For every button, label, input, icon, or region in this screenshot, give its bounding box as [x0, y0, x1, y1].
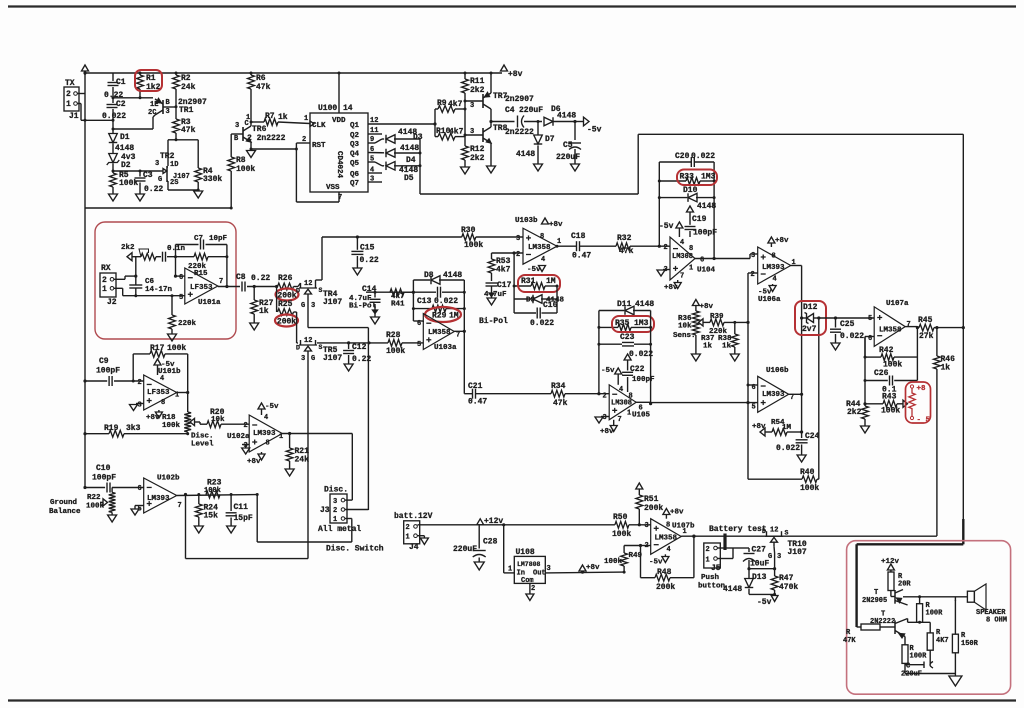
wire disc to J3 pin3 [351, 434, 353, 501]
op-amp U102a LM393 [249, 415, 282, 452]
wire C20 loop left [658, 162, 660, 246]
svg-text:+8v: +8v [664, 284, 678, 292]
transistor T 2N2222 [893, 626, 895, 628]
port -5v U106a [772, 284, 774, 286]
svg-text:3: 3 [470, 128, 474, 136]
svg-text:LM358: LM358 [879, 327, 902, 335]
svg-text:R47: R47 [779, 574, 794, 583]
svg-text:15pF: 15pF [234, 514, 253, 523]
speaker symbol [948, 596, 968, 598]
wire +12v row [418, 524, 615, 526]
svg-text:10uF: 10uF [750, 560, 769, 569]
power +8v U107b [663, 509, 670, 515]
resistor R23 100k [206, 491, 220, 498]
svg-text:47k: 47k [181, 126, 196, 135]
ground U102a pin3 [242, 444, 249, 446]
svg-text:CD4024: CD4024 [335, 151, 343, 179]
svg-text:U104: U104 [697, 267, 716, 275]
svg-text:7: 7 [680, 273, 684, 281]
svg-text:2: 2 [531, 585, 535, 593]
wire R48 to out [693, 536, 695, 578]
svg-text:R48: R48 [657, 568, 672, 577]
svg-text:47K: 47K [843, 637, 856, 645]
ground R37 [691, 354, 700, 361]
capacitor C12 0.22 [348, 343, 350, 349]
resistor R31 1M feedback [513, 253, 515, 286]
input arrow [127, 253, 132, 261]
svg-text:1: 1 [557, 238, 561, 246]
svg-text:LM358: LM358 [428, 329, 451, 337]
wire -5v row [749, 593, 775, 595]
wire U103a pin5 [414, 342, 423, 344]
svg-text:1: 1 [508, 566, 512, 574]
svg-text:T: T [874, 589, 878, 597]
svg-text:2N2222: 2N2222 [870, 618, 895, 626]
svg-text:C24: C24 [805, 432, 820, 441]
highlight R35 1M3 [612, 316, 654, 332]
wire U106b out [789, 393, 802, 395]
ground TR6 [247, 151, 256, 158]
resistor R 150R [954, 600, 956, 634]
resistor R43 100k [865, 403, 883, 405]
svg-text:7: 7 [178, 502, 182, 510]
resistor R44 2k2 [864, 404, 866, 406]
node TR6 collector [250, 121, 253, 124]
resistor R6 [250, 73, 252, 75]
transistor TR10 J107 [765, 535, 783, 537]
capacitor C17 4.7uF [486, 282, 498, 284]
resistor R50 100k [615, 521, 629, 528]
ground C11 [227, 526, 236, 533]
svg-text:4148: 4148 [400, 144, 419, 153]
svg-text:U100: U100 [318, 104, 337, 113]
ground C12 [344, 364, 353, 371]
capacitor C2 [112, 98, 114, 103]
svg-text:C4: C4 [505, 106, 515, 115]
node C8 out [253, 285, 256, 288]
svg-text:220uF: 220uF [519, 106, 543, 115]
svg-text:+12v: +12v [484, 517, 503, 526]
svg-text:J1: J1 [69, 112, 79, 121]
svg-text:R: R [936, 629, 941, 637]
wire J5 pin1 [718, 558, 734, 560]
svg-text:+8v: +8v [146, 414, 160, 422]
svg-text:R6: R6 [256, 74, 266, 83]
wire sens bus vertical [747, 273, 749, 479]
svg-text:3: 3 [155, 160, 159, 168]
ground C15 [353, 268, 362, 275]
svg-text:100R: 100R [910, 653, 928, 661]
svg-text:+8v: +8v [600, 428, 614, 436]
svg-text:G: G [158, 176, 162, 184]
node R3 bottom [175, 138, 178, 141]
svg-text:4148: 4148 [557, 112, 576, 121]
capacitor C4 220uF [491, 121, 515, 123]
svg-text:-5v: -5v [757, 598, 772, 607]
svg-text:4148: 4148 [516, 150, 535, 159]
svg-text:LM393: LM393 [762, 391, 785, 399]
ground U105 pin3 [601, 416, 609, 418]
svg-text:J4: J4 [409, 543, 419, 552]
svg-text:8: 8 [540, 233, 544, 241]
svg-text:1: 1 [304, 115, 308, 123]
resistor R 100R upper [919, 597, 921, 604]
wire Q6 stub [368, 172, 382, 174]
svg-text:D: D [296, 288, 300, 295]
svg-text:1M3: 1M3 [634, 319, 649, 328]
ground U108 [529, 583, 531, 594]
svg-text:D12: D12 [803, 303, 818, 312]
wire U107b pin2 node [641, 545, 651, 547]
wire TR4 source to C14 row [321, 279, 323, 281]
diode D1 4148 [109, 134, 118, 143]
svg-text:C6: C6 [145, 278, 155, 286]
svg-text:D: D [762, 528, 766, 535]
svg-text:LM358: LM358 [528, 244, 551, 252]
wire TR4 drain in [298, 283, 301, 287]
diode D9 4148 [513, 286, 515, 313]
svg-text:R34: R34 [551, 382, 566, 391]
svg-text:1D: 1D [170, 161, 178, 169]
wire R3 to TR2 drain [168, 139, 176, 141]
capacitor C16 0.022 [536, 308, 538, 319]
capacitor C 220uF speaker [904, 664, 906, 666]
wire Q2 stub [368, 133, 382, 135]
resistor R5 [112, 171, 114, 173]
wire J5 pin2 [718, 547, 734, 549]
svg-text:C19: C19 [692, 215, 707, 224]
wire out down to C21 [463, 331, 465, 393]
resistor R51 200k [636, 483, 643, 489]
wire +8v rail [85, 72, 502, 74]
wire C6 up [135, 257, 137, 276]
svg-text:2: 2 [333, 507, 337, 515]
svg-text:D1: D1 [120, 133, 130, 142]
svg-text:2: 2 [406, 524, 410, 532]
wire C20 loop right [713, 162, 715, 259]
svg-text:B: B [166, 99, 171, 107]
svg-text:2: 2 [603, 393, 607, 401]
connector J1 TX [64, 87, 79, 111]
capacitor C7 10pF [176, 244, 199, 246]
svg-text:100pF: 100pF [92, 474, 116, 483]
svg-text:C7: C7 [194, 235, 203, 243]
wire U106a pin2 [748, 272, 758, 274]
potentiometer R22 100k ground balance [111, 486, 113, 488]
svg-text:C15: C15 [360, 244, 375, 253]
ground J4 [420, 538, 428, 545]
svg-text:24k: 24k [295, 456, 310, 465]
wire Q5 to D5 [368, 161, 375, 163]
wire C27 row [749, 568, 775, 570]
power +12v arrow [477, 519, 484, 525]
svg-text:R2: R2 [181, 74, 191, 83]
highlight R31 1M [518, 275, 560, 292]
svg-text:batt.12V: batt.12V [394, 512, 433, 521]
svg-text:2: 2 [706, 546, 710, 554]
trimmer 2k2 [141, 253, 156, 260]
svg-text:14-17n: 14-17n [145, 286, 173, 294]
svg-text:Q5: Q5 [350, 160, 360, 168]
capacitor C6 14-17n [129, 284, 142, 286]
transistor TR5 J107 [299, 344, 317, 346]
capacitor C5 220uF [574, 122, 576, 141]
svg-text:2k2: 2k2 [470, 154, 485, 163]
connector J2 RX [100, 273, 116, 297]
resistor R38 1k [733, 321, 736, 324]
wire TR5 source row [316, 342, 318, 344]
svg-text:10pF: 10pF [209, 235, 228, 243]
svg-text:VSS: VSS [326, 184, 340, 192]
svg-text:LM358: LM358 [655, 535, 678, 543]
diode D12 2v7 [802, 317, 808, 319]
capacitor C8 0.22 [241, 282, 243, 292]
wire Q3 to D3 [368, 142, 375, 144]
resistor R1 [139, 73, 141, 75]
ground U104 pin3 [663, 269, 670, 271]
resistor R7 1k [251, 121, 264, 123]
svg-text:1k: 1k [259, 307, 269, 316]
svg-text:100k: 100k [386, 347, 405, 356]
wire diode bus [419, 139, 421, 194]
svg-text:+8v: +8v [247, 458, 261, 466]
svg-text:100k: 100k [464, 241, 483, 250]
op-amp U106b LM393 [758, 376, 789, 412]
node J1 pin2 [83, 71, 86, 74]
node C9 [83, 379, 86, 382]
svg-text:U103a: U103a [434, 344, 457, 352]
border bottom [8, 699, 1016, 701]
wire audio feed thick [857, 543, 964, 545]
capacitor C20 0.022 [659, 161, 691, 163]
svg-text:-5v: -5v [587, 126, 602, 135]
svg-text:R: R [846, 629, 851, 637]
wire U101b out [177, 392, 188, 394]
svg-text:D9: D9 [526, 297, 536, 305]
svg-text:C1: C1 [116, 78, 126, 87]
svg-text:+8v: +8v [752, 423, 766, 431]
power +8v sens [692, 300, 699, 306]
svg-text:8: 8 [666, 522, 670, 530]
capacitor C15 0.22 [356, 237, 358, 250]
svg-text:100k: 100k [881, 407, 900, 416]
wire feedback vertical [637, 134, 639, 194]
svg-text:TR6: TR6 [252, 125, 267, 134]
wire U107a feedback left vertical [864, 337, 866, 404]
power +8v U102a [261, 452, 263, 454]
ground TR8 [487, 166, 496, 173]
resistor R30 100k [462, 234, 476, 241]
power +8v U103b [542, 218, 549, 224]
node R26 R25 split [275, 285, 278, 288]
svg-text:Level: Level [191, 441, 214, 449]
svg-text:C23: C23 [620, 333, 635, 342]
connector J3 disc switch [330, 494, 347, 523]
svg-text:2k2: 2k2 [847, 408, 862, 417]
resistor R47 470k [774, 569, 776, 576]
wire speaker gnd row [905, 673, 955, 675]
svg-text:LF353: LF353 [147, 389, 170, 397]
wire U106b pin6 [748, 384, 758, 386]
svg-text:+8v: +8v [700, 303, 714, 311]
svg-text:8: 8 [161, 399, 165, 407]
highlight R29 1M [425, 307, 461, 322]
node C27 bottom [747, 567, 750, 570]
resistor R19 3k3 [83, 432, 86, 435]
resistor R42 100k [865, 356, 881, 358]
svg-text:47k: 47k [256, 83, 271, 92]
resistor R8 [230, 134, 232, 157]
svg-text:Ground: Ground [50, 499, 77, 507]
resistor R12 2k2 [462, 146, 469, 160]
resistor R 47K input [857, 626, 861, 628]
ground 220k [168, 334, 177, 341]
svg-text:7: 7 [907, 321, 911, 329]
capacitor C21 0.47 [472, 389, 474, 399]
svg-text:3: 3 [311, 302, 315, 310]
node D6 out [573, 120, 576, 123]
svg-text:R45: R45 [918, 316, 933, 325]
power +8v arrow left [82, 65, 89, 71]
wire VSS loop [338, 192, 340, 202]
wire feedback right vertical [962, 134, 964, 520]
svg-text:button: button [698, 583, 726, 591]
svg-text:Q3: Q3 [350, 141, 360, 149]
svg-text:B: B [234, 135, 239, 143]
svg-text:Q2: Q2 [350, 132, 360, 140]
highlight R33 1M3 [677, 170, 717, 186]
wire TR10 gate [773, 546, 776, 553]
svg-text:2n2907: 2n2907 [505, 95, 534, 104]
svg-text:0.022: 0.022 [840, 332, 864, 341]
svg-text:3: 3 [777, 553, 781, 561]
svg-text:2: 2 [102, 276, 107, 285]
wire U107a out [905, 326, 917, 328]
transistor TR6 2n2222 [242, 127, 244, 141]
node R51 R50 [638, 523, 641, 526]
wire J3 pin3 [345, 499, 352, 501]
node C25 [834, 316, 837, 319]
svg-text:6: 6 [417, 320, 421, 328]
svg-text:3: 3 [235, 122, 239, 130]
svg-text:U103b: U103b [515, 217, 538, 225]
potentiometer R18 100k disc level [187, 393, 189, 413]
wire audio feed thick vertical [962, 519, 964, 544]
wire U107b out row [681, 535, 937, 537]
svg-text:1: 1 [246, 114, 250, 122]
svg-text:R19: R19 [104, 424, 119, 433]
resistor R 4K7 [929, 622, 931, 633]
wire C15 row [322, 236, 462, 238]
ground C3 [136, 194, 145, 201]
resistor R26 200k [278, 283, 294, 290]
ground C17 [487, 298, 496, 305]
svg-text:RX: RX [101, 264, 111, 273]
diode D4 4148 [386, 149, 395, 158]
svg-text:1: 1 [706, 557, 710, 565]
svg-text:2: 2 [664, 244, 668, 252]
ground C28 [474, 562, 484, 570]
wire VDD to rail [338, 73, 340, 113]
svg-text:LM393: LM393 [147, 495, 170, 503]
svg-text:D4: D4 [406, 156, 416, 165]
node R34 out [597, 392, 600, 395]
svg-text:C8: C8 [236, 273, 246, 282]
svg-text:J3: J3 [320, 506, 330, 515]
zener D2 4v3 [109, 154, 118, 163]
wire Q7 stub [368, 181, 382, 183]
ground R4 [194, 191, 203, 198]
svg-text:R40: R40 [800, 468, 815, 477]
node pin6 column [174, 255, 177, 258]
svg-text:100k: 100k [800, 484, 819, 493]
svg-text:LM7808: LM7808 [517, 561, 541, 568]
wire TR2 source to R4 [168, 189, 198, 191]
transistor TR4 J107 [299, 287, 317, 289]
capacitor C11 15pF [230, 495, 232, 512]
svg-text:C16: C16 [543, 301, 558, 310]
svg-text:C17: C17 [497, 281, 512, 290]
wire to C27 [733, 547, 749, 549]
node R9 R11 [464, 108, 467, 111]
svg-text:TR1: TR1 [179, 106, 194, 115]
svg-text:100k: 100k [167, 344, 186, 353]
svg-text:0.22: 0.22 [251, 274, 270, 283]
svg-text:6: 6 [700, 257, 704, 265]
wire 2N2222 emitter [904, 637, 906, 645]
wire left bus vertical [84, 73, 86, 208]
op-amp U101b LF353 [144, 375, 177, 410]
svg-text:R1: R1 [146, 74, 156, 83]
svg-text:RST: RST [312, 142, 326, 150]
svg-text:U105: U105 [632, 412, 651, 420]
svg-text:100k: 100k [236, 165, 255, 174]
svg-text:1: 1 [689, 265, 693, 273]
svg-text:R42: R42 [879, 346, 894, 355]
svg-text:2k2: 2k2 [121, 244, 135, 252]
wire TR5 drain in [296, 312, 298, 343]
svg-text:G: G [311, 355, 315, 363]
svg-text:D13: D13 [752, 573, 767, 582]
transistor TR7 2n2907 [482, 94, 484, 108]
ground R24 [194, 526, 203, 533]
svg-text:S: S [319, 287, 323, 294]
wire Q1 out [368, 123, 435, 125]
svg-text:7: 7 [456, 332, 460, 340]
diode D11 4148 [599, 310, 624, 312]
svg-text:R: R [961, 632, 966, 640]
capacitor C25 0.022 [835, 318, 837, 328]
resistor R15 220k [194, 253, 208, 260]
resistor R17 100k [132, 354, 134, 381]
svg-text:220uF: 220uF [453, 545, 477, 554]
svg-text:R35: R35 [615, 319, 630, 328]
capacitor C13 0.022 [437, 287, 439, 298]
ground U102b pin5 [135, 505, 144, 507]
svg-text:Battery test: Battery test [709, 525, 767, 534]
svg-text:4148: 4148 [443, 271, 462, 280]
svg-text:Balance: Balance [49, 508, 81, 516]
svg-text:2N2905: 2N2905 [862, 597, 887, 605]
svg-text:R31: R31 [521, 277, 536, 286]
highlight preamp box [95, 222, 236, 339]
svg-text:24k: 24k [181, 83, 196, 92]
wire U104 out to U106a [714, 258, 750, 260]
resistor R20 10k [195, 421, 201, 423]
svg-text:Sens.: Sens. [673, 332, 696, 340]
node D2 bottom [112, 170, 115, 173]
transistor TR2 J107 [160, 170, 163, 172]
